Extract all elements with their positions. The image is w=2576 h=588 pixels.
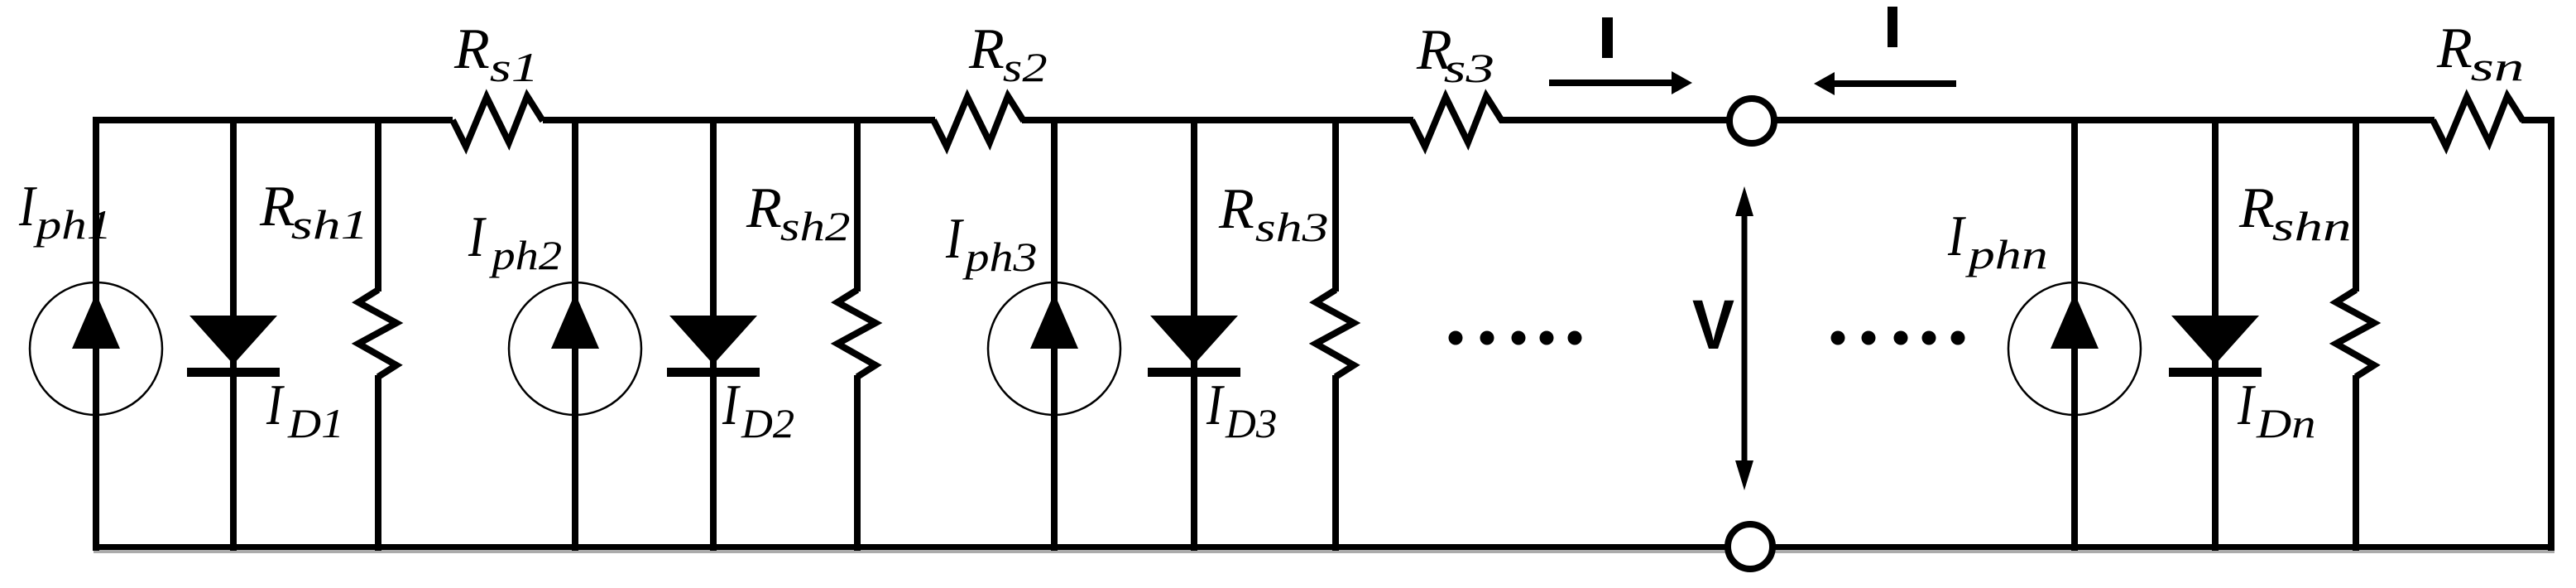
svg-text:R: R xyxy=(2436,17,2473,80)
svg-text:D3: D3 xyxy=(1225,400,1277,446)
svg-text:I: I xyxy=(18,173,38,238)
svg-text:s3: s3 xyxy=(1444,46,1494,92)
svg-text:sh1: sh1 xyxy=(291,201,369,248)
svg-text:Dn: Dn xyxy=(2256,401,2316,446)
svg-text:D2: D2 xyxy=(741,401,794,447)
svg-text:R: R xyxy=(259,175,295,239)
svg-text:V: V xyxy=(1692,287,1734,364)
svg-text:I: I xyxy=(1947,203,1967,267)
svg-text:I: I xyxy=(945,205,965,270)
svg-text:I: I xyxy=(1206,372,1226,436)
svg-text:R: R xyxy=(746,176,782,240)
svg-text:ph1: ph1 xyxy=(32,202,112,248)
svg-text:phn: phn xyxy=(1964,232,2047,277)
svg-text:I: I xyxy=(266,372,285,436)
svg-text:sh3: sh3 xyxy=(1255,205,1329,250)
svg-text:sn: sn xyxy=(2471,43,2525,89)
svg-text:R: R xyxy=(968,17,1005,81)
svg-text:R: R xyxy=(453,17,490,81)
svg-text:I: I xyxy=(468,204,487,268)
svg-text:ph3: ph3 xyxy=(962,234,1037,280)
svg-text:s2: s2 xyxy=(1003,46,1048,91)
svg-text:ph2: ph2 xyxy=(488,232,562,278)
svg-text:R: R xyxy=(2238,176,2275,240)
svg-text:I: I xyxy=(2237,372,2257,436)
svg-text:I: I xyxy=(722,372,741,436)
svg-text:sh2: sh2 xyxy=(780,204,851,250)
svg-text:shn: shn xyxy=(2272,204,2352,250)
svg-text:s1: s1 xyxy=(490,44,540,90)
svg-text:R: R xyxy=(1218,177,1254,241)
svg-text:D1: D1 xyxy=(287,401,344,446)
